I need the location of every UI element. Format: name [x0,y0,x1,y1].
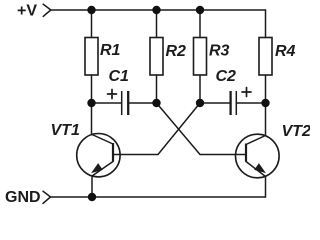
wire VT2 emitter lead [265,177,267,198]
svg-text:R4: R4 [275,43,296,60]
wire R3 top lead [199,10,201,38]
wire R1 top lead [91,10,93,38]
resistor R2 [150,38,163,76]
node top R3 [196,6,204,14]
svg-text:C1: C1 [109,68,130,85]
wire R1 bottom lead [91,75,93,103]
svg-text:+V: +V [17,3,37,20]
node GND emitter [88,193,96,201]
wire C2 to node D [236,102,265,104]
node C [196,99,204,107]
wire R4 top corner [265,10,267,38]
+V terminal chevron [43,4,51,16]
resistor R4 [259,38,272,76]
svg-text:C2: C2 [216,68,237,85]
C1 plus sign [108,90,117,99]
svg-text:R3: R3 [209,43,230,60]
svg-text:VT1: VT1 [51,122,80,139]
wire R2 bottom lead [156,75,158,103]
GND terminal chevron [43,191,51,203]
transistor Q2 VT2 [235,134,279,178]
capacitor C2 [231,91,237,115]
wire C1 to node B [128,102,156,104]
wire VT1 collector lead [91,103,93,135]
wire R4 bottom lead [265,75,267,103]
transistor Q1 VT1 [77,134,120,177]
GND bottom rail wire [51,196,266,198]
C2 plus sign [242,88,251,97]
wire node A to C1 [92,102,122,104]
resistor R1 [85,38,98,76]
node B [152,99,160,107]
wire VT1 emitter lead [91,176,93,197]
wire node C to C2 [200,102,230,104]
capacitor C1 [122,91,129,115]
wire VT2 collector lead [265,103,267,136]
wire cross C to VT1 base [113,103,200,155]
resistor R3 [194,38,207,76]
node A [87,99,95,107]
+V top rail wire [51,9,266,11]
node top R2 [152,6,160,14]
node top R1 [87,6,95,14]
wire R2 top lead [156,10,158,38]
svg-text:R2: R2 [166,43,187,60]
wire cross B to VT2 base [157,103,247,155]
node D [261,99,269,107]
svg-text:VT2: VT2 [282,123,311,140]
svg-text:R1: R1 [100,42,121,59]
svg-text:GND: GND [5,189,41,206]
wire R3 bottom lead [199,75,201,103]
